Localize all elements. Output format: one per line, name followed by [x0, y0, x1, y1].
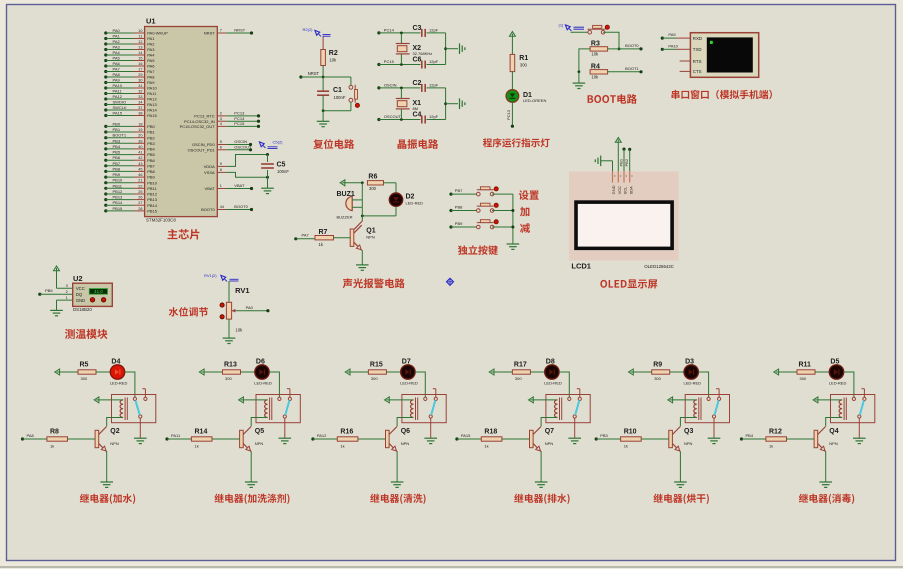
svg-text:PB0: PB0: [113, 121, 121, 126]
svg-text:NPN: NPN: [401, 441, 410, 446]
svg-text:1k: 1k: [769, 443, 773, 448]
svg-text:BOOT0: BOOT0: [201, 207, 215, 212]
svg-text:8: 8: [220, 168, 222, 172]
svg-text:PA6: PA6: [147, 64, 155, 69]
svg-text:3: 3: [66, 284, 68, 288]
svg-text:PA5: PA5: [147, 58, 155, 63]
svg-text:Q7: Q7: [545, 428, 554, 435]
svg-text:PB10: PB10: [147, 180, 158, 185]
svg-text:Q4: Q4: [829, 428, 838, 435]
svg-text:18: 18: [138, 122, 142, 126]
svg-text:LED-RED: LED-RED: [110, 380, 128, 385]
svg-text:PA0: PA0: [113, 28, 121, 33]
svg-text:PB11: PB11: [147, 186, 157, 191]
svg-text:PA13: PA13: [147, 102, 157, 107]
svg-text:R2: R2: [329, 50, 338, 57]
svg-text:R4: R4: [591, 63, 600, 70]
svg-text:OSCIN_PD0: OSCIN_PD0: [192, 142, 215, 147]
svg-text:PB6: PB6: [147, 158, 155, 163]
svg-text:1k: 1k: [195, 443, 199, 448]
svg-text:21: 21: [138, 179, 142, 183]
svg-text:40: 40: [138, 145, 142, 149]
svg-text:LED-RED: LED-RED: [254, 380, 272, 385]
svg-text:PB7: PB7: [113, 161, 121, 166]
svg-text:PB1: PB1: [147, 130, 155, 135]
svg-text:SCL: SCL: [623, 186, 628, 195]
svg-text:VCC: VCC: [76, 286, 85, 291]
svg-text:R9: R9: [653, 362, 662, 369]
svg-text:D4: D4: [111, 358, 120, 365]
svg-text:PA15: PA15: [113, 111, 123, 116]
svg-text:OSCIN: OSCIN: [384, 82, 397, 87]
svg-text:C6: C6: [413, 57, 422, 64]
svg-text:2: 2: [66, 290, 68, 294]
svg-text:PB4: PB4: [147, 147, 155, 152]
svg-text:BUZZER: BUZZER: [337, 214, 353, 219]
svg-text:R12: R12: [769, 429, 782, 436]
svg-text:43: 43: [138, 162, 142, 166]
svg-text:39: 39: [138, 139, 142, 143]
svg-text:R10: R10: [624, 429, 637, 436]
svg-text:TXD: TXD: [693, 47, 702, 52]
svg-text:R13: R13: [224, 362, 237, 369]
svg-text:LCD1: LCD1: [571, 261, 591, 270]
svg-text:PB6: PB6: [113, 155, 121, 160]
svg-text:PB9: PB9: [455, 221, 463, 226]
svg-text:LED-RED: LED-RED: [684, 380, 702, 385]
svg-text:NPN: NPN: [829, 441, 838, 446]
svg-text:BOOT1: BOOT1: [113, 133, 127, 138]
svg-text:VSSA: VSSA: [204, 170, 215, 175]
svg-text:C2: C2: [413, 80, 422, 87]
svg-text:PB5: PB5: [113, 150, 121, 155]
svg-text:11: 11: [139, 35, 143, 39]
svg-text:OSCIN: OSCIN: [234, 139, 247, 144]
svg-text:8M: 8M: [413, 106, 419, 111]
svg-text:NRST: NRST: [234, 28, 245, 33]
svg-text:R3: R3: [591, 41, 600, 48]
svg-text:100nF: 100nF: [277, 169, 289, 174]
svg-text:R18: R18: [484, 429, 497, 436]
svg-text:PB8: PB8: [113, 166, 121, 171]
svg-text:14: 14: [138, 51, 142, 55]
svg-text:OSCOUT: OSCOUT: [384, 114, 402, 119]
svg-text:2: 2: [220, 112, 222, 116]
svg-text:PB5: PB5: [147, 152, 155, 157]
svg-text:R11: R11: [799, 362, 812, 369]
svg-text:29: 29: [138, 73, 142, 77]
svg-text:D7: D7: [402, 358, 411, 365]
svg-text:41.0: 41.0: [94, 289, 103, 294]
svg-text:PB12: PB12: [147, 192, 158, 197]
svg-text:PC15: PC15: [384, 59, 395, 64]
svg-text:PC13_RTC: PC13_RTC: [194, 114, 214, 119]
svg-text:100nF: 100nF: [334, 95, 346, 100]
svg-text:D8: D8: [546, 358, 555, 365]
svg-text:1k: 1k: [50, 443, 54, 448]
svg-text:300: 300: [520, 63, 528, 68]
svg-text:16: 16: [138, 62, 142, 66]
svg-text:PB9: PB9: [113, 172, 121, 177]
svg-text:R1: R1: [519, 55, 528, 62]
svg-text:PB1: PB1: [618, 158, 623, 166]
svg-text:C5(2): C5(2): [273, 140, 284, 145]
svg-text:PA7: PA7: [147, 69, 155, 74]
svg-text:R16: R16: [340, 429, 353, 436]
svg-text:33: 33: [138, 95, 142, 99]
svg-text:D3: D3: [685, 358, 694, 365]
svg-text:RV1(2): RV1(2): [204, 273, 217, 278]
svg-text:PB4: PB4: [746, 433, 754, 438]
svg-text:44: 44: [220, 205, 224, 209]
svg-text:PA5: PA5: [113, 56, 121, 61]
svg-text:PA1: PA1: [147, 36, 155, 41]
svg-text:25: 25: [138, 190, 142, 194]
svg-text:PA12: PA12: [147, 97, 157, 102]
svg-text:PA14: PA14: [147, 108, 157, 113]
svg-text:PB3: PB3: [113, 138, 121, 143]
svg-text:SWCLK: SWCLK: [113, 105, 128, 110]
svg-text:PC15: PC15: [234, 121, 245, 126]
svg-text:PB0: PB0: [147, 124, 155, 129]
svg-text:SDA: SDA: [628, 186, 633, 195]
svg-text:R8: R8: [50, 429, 59, 436]
svg-text:VDDA: VDDA: [204, 164, 215, 169]
svg-text:C5: C5: [277, 162, 286, 169]
svg-text:BOOT0: BOOT0: [234, 204, 248, 209]
svg-text:PA4: PA4: [113, 50, 121, 55]
svg-text:PB6: PB6: [45, 288, 53, 293]
svg-text:PB11: PB11: [113, 183, 123, 188]
svg-text:32: 32: [138, 90, 142, 94]
svg-text:17: 17: [138, 68, 142, 72]
svg-text:PB14: PB14: [113, 200, 124, 205]
svg-text:1: 1: [66, 296, 68, 300]
svg-text:LED-RED: LED-RED: [544, 380, 562, 385]
svg-text:300: 300: [369, 186, 377, 191]
svg-text:GND: GND: [76, 298, 85, 303]
svg-text:PB13: PB13: [113, 195, 124, 200]
svg-text:7: 7: [220, 29, 222, 33]
svg-text:D2: D2: [406, 193, 415, 200]
svg-text:C3: C3: [413, 25, 422, 32]
svg-text:20: 20: [138, 134, 142, 138]
svg-text:PB8: PB8: [455, 204, 463, 209]
svg-text:PA15: PA15: [147, 113, 157, 118]
svg-text:PA10: PA10: [147, 86, 157, 91]
svg-text:PA11: PA11: [171, 433, 181, 438]
svg-text:27: 27: [138, 201, 142, 205]
svg-text:13: 13: [138, 46, 142, 50]
svg-text:PB3: PB3: [147, 141, 155, 146]
svg-text:PA4: PA4: [147, 53, 155, 58]
svg-text:PC13: PC13: [234, 111, 245, 116]
svg-text:PA15: PA15: [461, 433, 471, 438]
svg-text:45: 45: [138, 167, 142, 171]
svg-text:PB9: PB9: [147, 175, 155, 180]
svg-text:PA0-WKUP: PA0-WKUP: [147, 31, 168, 36]
svg-text:1k: 1k: [340, 443, 344, 448]
svg-text:BOOT0: BOOT0: [625, 43, 639, 48]
svg-text:PB4: PB4: [113, 144, 121, 149]
svg-text:PB10: PB10: [113, 178, 124, 183]
svg-text:41: 41: [138, 151, 142, 155]
svg-text:LED-RED: LED-RED: [400, 380, 418, 385]
svg-text:12: 12: [138, 40, 142, 44]
svg-text:300: 300: [515, 376, 522, 381]
svg-text:U1: U1: [146, 17, 156, 26]
svg-text:LED-RED: LED-RED: [406, 200, 424, 205]
svg-text:PA3: PA3: [147, 47, 155, 52]
svg-text:10k: 10k: [591, 75, 599, 80]
svg-text:LED-GREEN: LED-GREEN: [523, 98, 546, 103]
svg-text:31: 31: [138, 84, 142, 88]
svg-text:PA8: PA8: [27, 433, 35, 438]
svg-text:PB13: PB13: [147, 197, 158, 202]
svg-text:Q5: Q5: [255, 428, 264, 435]
svg-text:CTS: CTS: [693, 69, 702, 74]
svg-text:Q6: Q6: [401, 428, 410, 435]
svg-text:22: 22: [138, 184, 142, 188]
svg-text:9: 9: [220, 162, 222, 166]
svg-text:10k: 10k: [236, 328, 244, 333]
svg-text:OLED128642C: OLED128642C: [644, 264, 674, 269]
svg-text:34: 34: [138, 101, 142, 105]
svg-text:12pF: 12pF: [429, 114, 439, 119]
svg-text:NPN: NPN: [255, 441, 264, 446]
svg-text:NPN: NPN: [684, 441, 693, 446]
svg-text:RV1: RV1: [235, 286, 249, 295]
svg-text:PA0: PA0: [246, 305, 254, 310]
svg-text:PA9: PA9: [147, 80, 155, 85]
svg-text:PA2: PA2: [147, 42, 155, 47]
svg-text:NPN: NPN: [545, 441, 554, 446]
svg-text:PA6: PA6: [113, 61, 121, 66]
svg-text:Q2: Q2: [110, 428, 119, 435]
svg-text:RTS: RTS: [693, 59, 702, 64]
svg-text:PB2: PB2: [147, 135, 155, 140]
svg-text:PB7: PB7: [455, 188, 463, 193]
svg-text:PA12: PA12: [317, 433, 327, 438]
svg-text:GND: GND: [611, 185, 616, 194]
svg-text:BOOT1: BOOT1: [625, 66, 639, 71]
svg-text:19: 19: [138, 128, 142, 132]
svg-text:300: 300: [371, 376, 378, 381]
svg-text:D6: D6: [256, 358, 265, 365]
svg-text:4: 4: [220, 122, 222, 126]
svg-text:DS18B20: DS18B20: [73, 307, 92, 312]
svg-text:32.768KHz: 32.768KHz: [413, 51, 433, 56]
svg-text:OSCOUT: OSCOUT: [234, 145, 252, 150]
svg-text:PA7: PA7: [113, 67, 121, 72]
svg-text:Q1: Q1: [366, 228, 375, 235]
svg-text:OSCOUT_PD1: OSCOUT_PD1: [188, 147, 216, 152]
svg-text:STM32F103C8: STM32F103C8: [146, 218, 176, 223]
svg-text:26: 26: [138, 196, 142, 200]
svg-text:12pF: 12pF: [429, 82, 439, 87]
svg-text:PA9: PA9: [668, 32, 676, 37]
svg-text:U2: U2: [73, 274, 83, 283]
svg-text:PC14: PC14: [384, 27, 395, 32]
svg-text:PA7: PA7: [302, 233, 310, 238]
svg-text:38: 38: [138, 112, 142, 116]
svg-text:300: 300: [800, 376, 807, 381]
svg-text:PB12: PB12: [113, 189, 124, 194]
svg-text:PA11: PA11: [113, 89, 123, 94]
svg-text:PB7: PB7: [147, 163, 155, 168]
svg-text:NPN: NPN: [366, 235, 375, 240]
svg-text:12pF: 12pF: [429, 59, 439, 64]
svg-text:C4: C4: [413, 112, 422, 119]
svg-text:28: 28: [138, 207, 142, 211]
svg-text:PA8: PA8: [147, 75, 155, 80]
svg-text:PB8: PB8: [147, 169, 155, 174]
svg-text:VCC: VCC: [617, 186, 622, 195]
svg-text:SWDIO: SWDIO: [113, 100, 127, 105]
svg-text:DQ: DQ: [76, 292, 83, 297]
svg-text:PC13: PC13: [506, 109, 511, 120]
svg-text:1k: 1k: [624, 443, 628, 448]
svg-text:10k: 10k: [591, 52, 599, 57]
svg-text:PA10: PA10: [113, 83, 123, 88]
svg-text:R7: R7: [319, 229, 328, 236]
svg-text:PB1: PB1: [113, 127, 121, 132]
svg-text:37: 37: [138, 106, 142, 110]
svg-text:PA9: PA9: [113, 78, 121, 83]
svg-text:300: 300: [81, 376, 88, 381]
svg-text:(1): (1): [559, 23, 565, 28]
svg-text:10: 10: [138, 29, 142, 33]
svg-text:NRST: NRST: [204, 31, 215, 36]
svg-text:LED-RED: LED-RED: [829, 380, 847, 385]
svg-text:12pF: 12pF: [429, 27, 439, 32]
svg-text:3: 3: [220, 117, 222, 121]
svg-text:NPN: NPN: [110, 441, 119, 446]
svg-text:PA3: PA3: [113, 45, 121, 50]
svg-text:D5: D5: [830, 358, 839, 365]
svg-text:10k: 10k: [329, 58, 337, 63]
svg-text:RXD: RXD: [693, 36, 702, 41]
svg-text:46: 46: [138, 173, 142, 177]
svg-text:R15: R15: [370, 362, 383, 369]
svg-text:R6: R6: [368, 174, 377, 181]
svg-text:PA1: PA1: [113, 34, 121, 39]
svg-text:15: 15: [138, 57, 142, 61]
svg-text:R2(2): R2(2): [303, 27, 314, 32]
svg-text:1: 1: [220, 184, 222, 188]
svg-text:PA8: PA8: [113, 72, 121, 77]
svg-text:PA12: PA12: [113, 94, 123, 99]
svg-text:42: 42: [138, 156, 142, 160]
svg-text:C1: C1: [333, 87, 342, 94]
svg-text:R14: R14: [195, 429, 208, 436]
svg-text:1k: 1k: [484, 443, 488, 448]
svg-text:R5: R5: [80, 362, 89, 369]
svg-text:PA2: PA2: [113, 39, 121, 44]
svg-text:300: 300: [654, 376, 661, 381]
svg-text:PB15: PB15: [113, 206, 124, 211]
svg-text:PB14: PB14: [147, 203, 158, 208]
svg-text:PA11: PA11: [147, 91, 157, 96]
svg-text:PA10: PA10: [668, 43, 678, 48]
svg-text:BUZ1: BUZ1: [337, 191, 355, 198]
svg-text:PB15: PB15: [147, 209, 158, 214]
svg-text:VBAT: VBAT: [205, 186, 216, 191]
svg-text:VBAT: VBAT: [234, 183, 245, 188]
svg-text:300: 300: [225, 376, 232, 381]
svg-text:PB2: PB2: [624, 158, 629, 166]
svg-text:6: 6: [220, 146, 222, 150]
svg-text:PC15-OSC32_OUT: PC15-OSC32_OUT: [180, 124, 216, 129]
svg-text:NRST: NRST: [308, 71, 320, 76]
svg-text:5: 5: [220, 140, 222, 144]
svg-text:PB3: PB3: [600, 433, 608, 438]
svg-text:30: 30: [138, 79, 142, 83]
svg-text:R17: R17: [514, 362, 527, 369]
svg-text:Q3: Q3: [684, 428, 693, 435]
